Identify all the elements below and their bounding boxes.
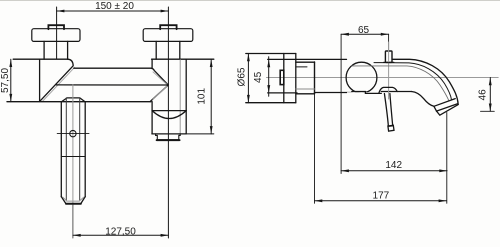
spout collar top line [434,99,455,107]
handle bottom inner shading [63,197,84,201]
handle top cap [61,98,85,102]
step ring bottom [296,93,315,95]
dim 45 line (arrows outside) [268,57,270,96]
chevron lower highlight [153,86,167,99]
ledge under circle [352,92,382,94]
knob base [384,61,394,63]
wall nipple [280,70,284,84]
spout column left edge upper [151,59,153,68]
body bottom edge + 57,50 extension [7,101,151,103]
collar bottom arc [152,111,186,119]
body top edge + 45 extension [268,58,347,60]
handle bottom chamfer left [61,197,66,204]
right connector flange [143,29,193,42]
body mid-bottom edge [56,84,168,86]
dim 46 line [489,78,491,112]
spout mouth end face [437,105,459,116]
handle centerline [72,85,74,205]
dimension 150±20 line [57,10,169,12]
dim 57,50 line [10,59,12,101]
collar top line [152,110,186,112]
body left edge [39,59,41,101]
dim 101 bottom extension [185,133,214,135]
cartridge housing circle [346,62,377,93]
knob centerline [388,34,390,51]
centerline right connector / spout column [167,7,169,238]
main axis centerline [267,77,499,79]
handle bottom chamfer right [81,197,85,204]
centerline left connector [56,7,58,59]
handle seam [61,156,85,158]
spout column left edge lower [151,102,153,134]
svg-text:Ø65: Ø65 [236,67,247,86]
spout column right edge [185,59,187,134]
dim 142 line [341,170,447,172]
svg-text:142: 142 [385,160,402,171]
body bottom behind hub [381,91,411,93]
svg-text:65: 65 [358,25,370,36]
body top edge + 57,50 extension [13,58,68,60]
dim 127,50 line [73,234,168,236]
handle centerline extension to dim [72,205,74,238]
chamfer highlight left [42,67,74,101]
body top right edge + 101 extension [152,58,214,60]
dim dia65 line [247,54,249,103]
left connector notch [48,25,64,29]
svg-text:101: 101 [197,88,208,105]
handle bottom edge [66,203,81,205]
handle outer right [84,102,86,197]
right connector notch [160,25,176,29]
spout shading curve 1 [374,63,452,100]
step ring lower shading [296,88,315,90]
corner top-left body [68,59,73,66]
right connector stem [155,41,157,59]
spout shading curve 2 [352,66,449,101]
dim 65 line [341,33,389,35]
svg-text:150 ± 20: 150 ± 20 [95,1,134,12]
escutcheon top edge + dia65 extension [246,53,296,55]
spout collar left side [434,106,437,111]
mask circle bottom below ledge [347,92,381,96]
handle cross centerline [57,133,89,135]
arrow left of 150±20 [57,10,65,13]
svg-text:127,50: 127,50 [105,227,136,238]
spout collar bottom line [437,104,458,111]
lever tip [388,125,394,131]
escutcheon right edge [295,54,297,103]
step ring top [296,61,315,63]
spout inner curve [412,92,434,107]
handle screw circle [70,130,76,136]
dim 177 line [315,200,447,202]
svg-text:177: 177 [373,191,390,202]
big chamfer diagonal left [40,66,73,101]
right extension for 142/177 [446,113,448,204]
step ring right edge [314,62,316,94]
top faint border [0,0,500,2]
escutcheon bottom edge + dia65 extension [246,102,296,104]
step ring shading [296,66,307,68]
body bottom edge mid [315,92,352,94]
spout column bottom edge [152,133,185,135]
dim 101 line [210,59,212,134]
svg-text:45: 45 [253,71,264,83]
chevron lower diagonal [150,85,168,102]
escutcheon left edge [283,54,285,103]
spout column shading line [179,60,181,134]
svg-text:46: 46 [478,89,489,101]
aerator [156,134,181,140]
arrow right of 150±20 [161,10,169,13]
extension 177 left (from step) [314,94,316,204]
svg-text:57,50: 57,50 [0,68,11,93]
chevron upper highlight [153,72,167,84]
lever hub dome [379,87,397,93]
extension 65/142 left [340,34,342,173]
dim 46 bottom extension [481,110,495,112]
body mid-top edge [74,68,168,85]
handle inner right [79,98,81,201]
body bottom edge + 45 extension [268,92,297,94]
spout top edge [393,59,458,104]
diverter knob stem [385,51,392,62]
handle outer left [60,102,62,197]
aerator bottom edge [157,139,180,141]
left connector stem [43,41,45,59]
lever arm [384,94,392,127]
left connector flange [32,29,80,42]
handle inner left [65,98,67,201]
